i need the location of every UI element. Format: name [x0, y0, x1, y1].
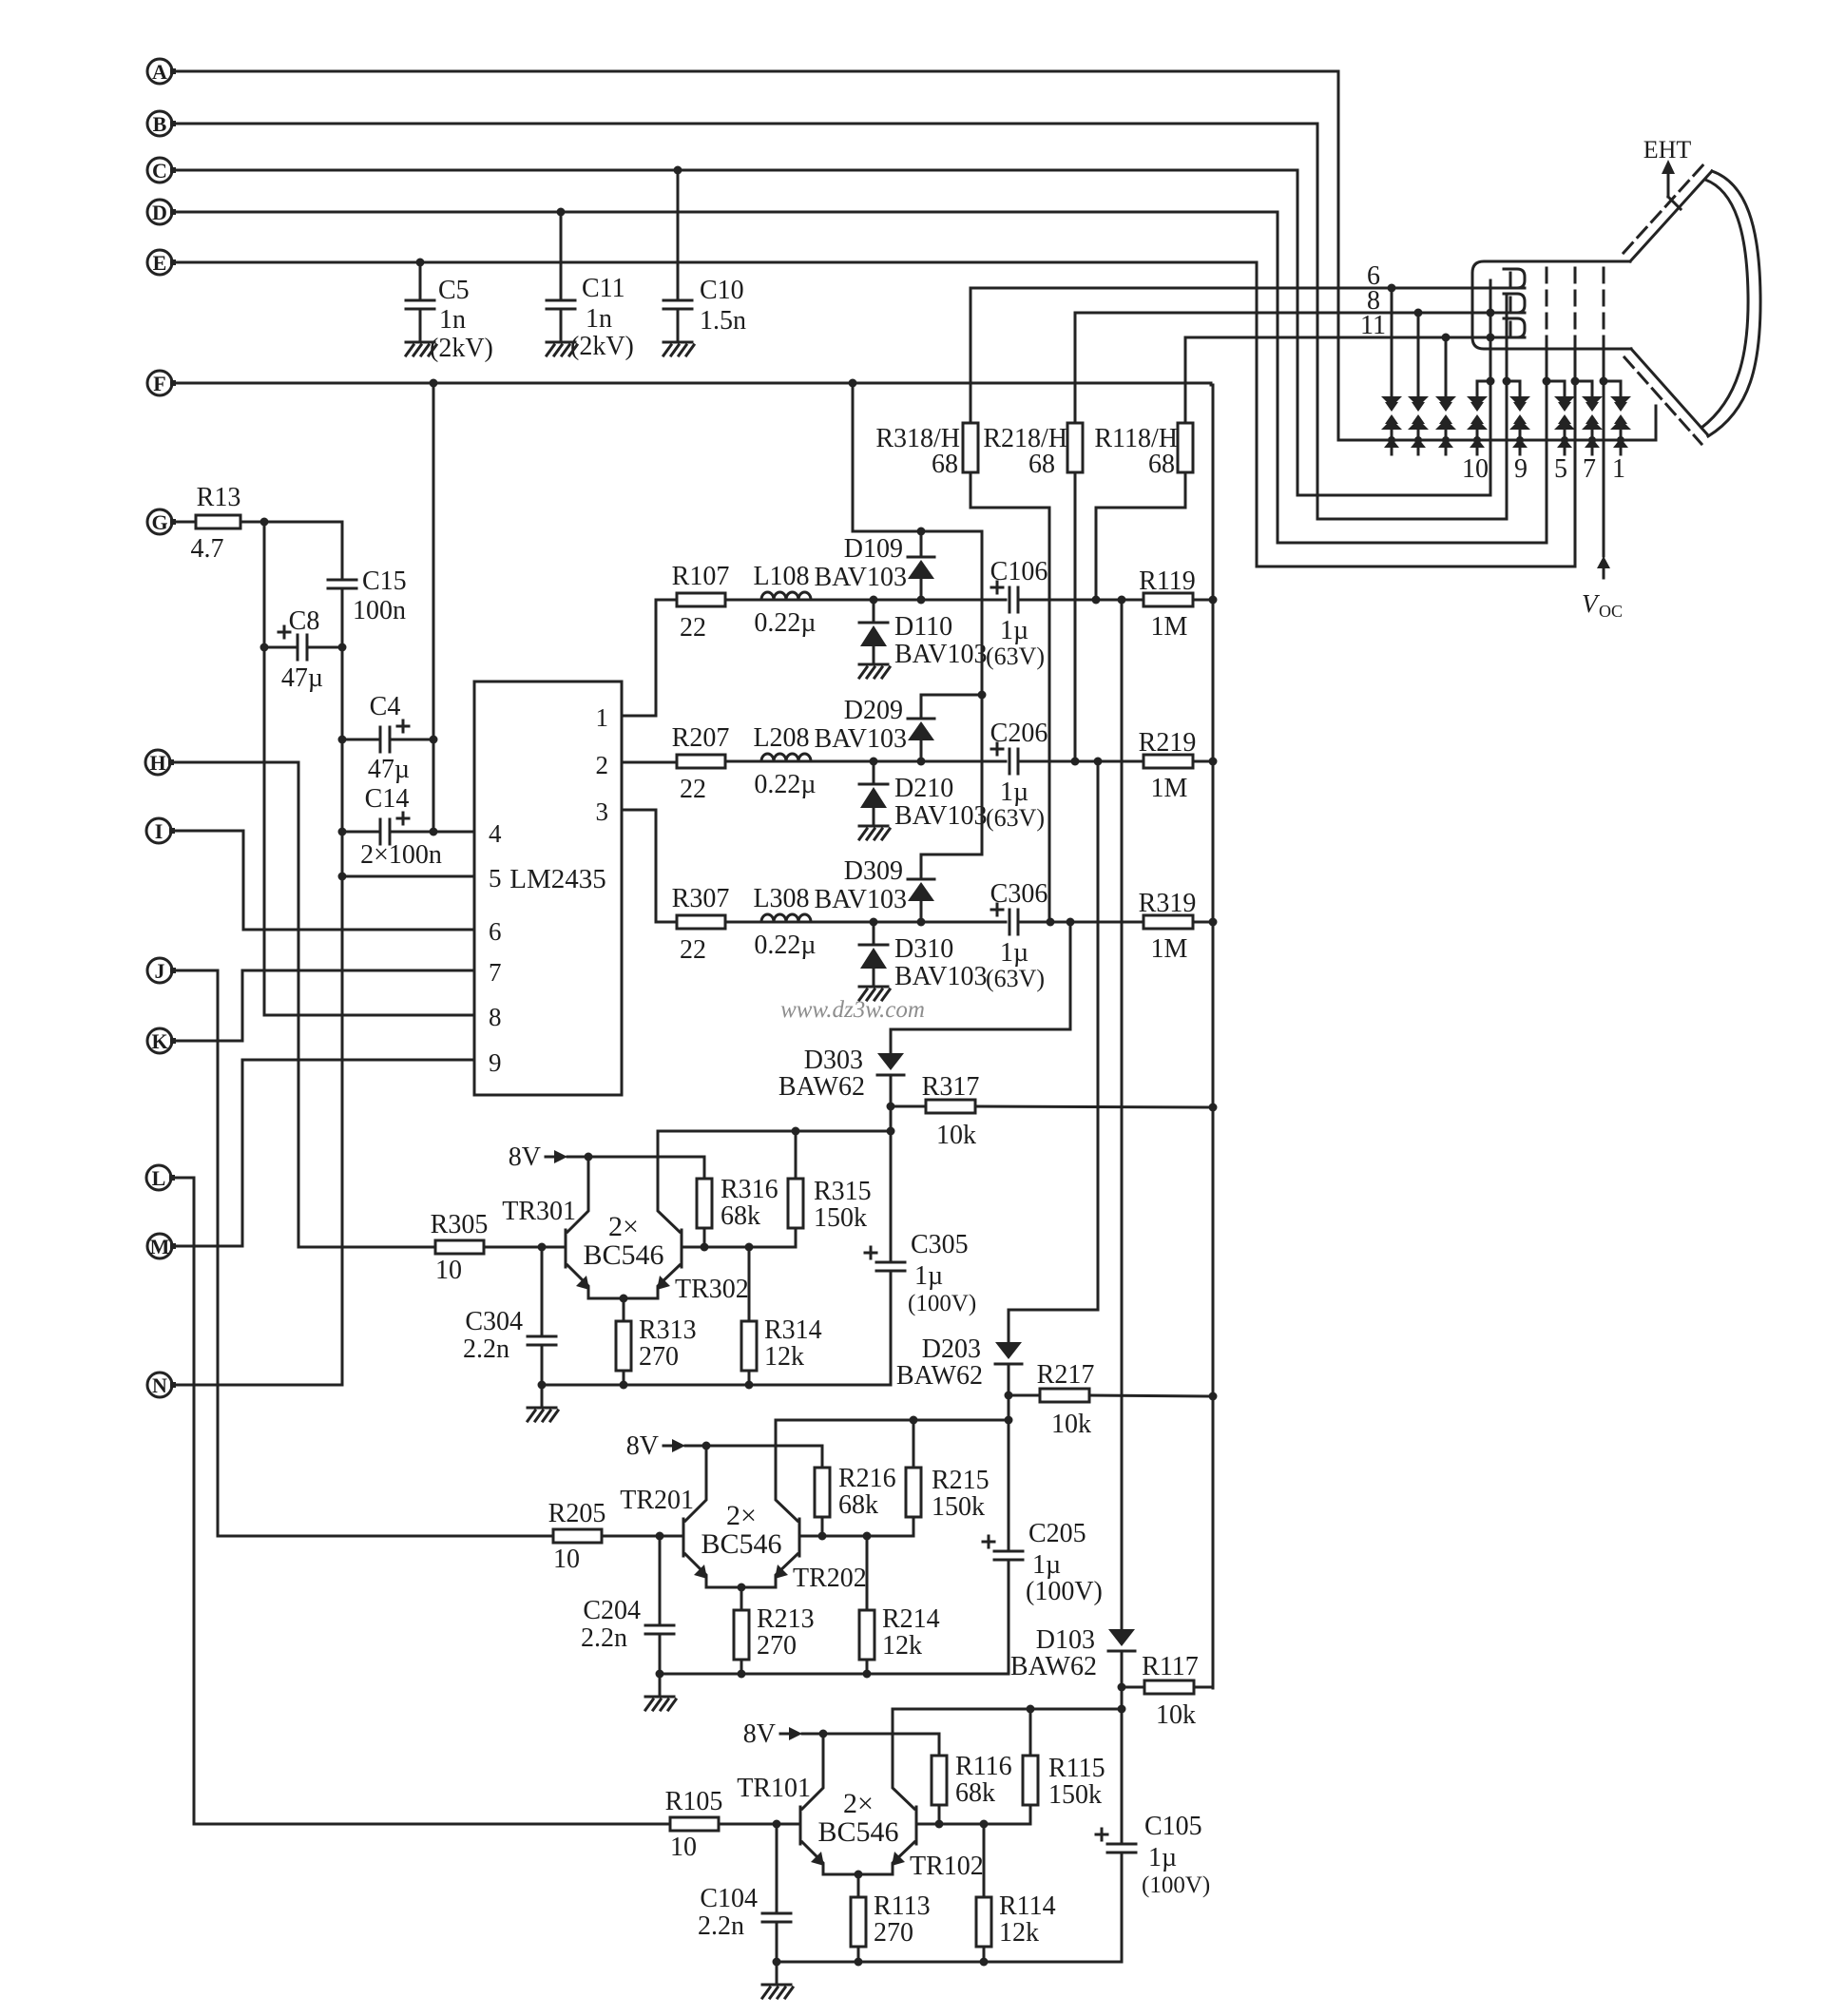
- svg-text:22: 22: [680, 775, 706, 804]
- transistor TR201: [683, 1446, 707, 1587]
- label 2xBC546 (TR201): [701, 1500, 781, 1560]
- CRT heater line pin 9: [1503, 296, 1511, 519]
- label R105: [665, 1787, 723, 1862]
- CRT grid line x1687: [1600, 268, 1608, 556]
- svg-text:(63V): (63V): [986, 965, 1045, 992]
- svg-text:BAW62: BAW62: [778, 1072, 865, 1102]
- svg-text:68k: 68k: [838, 1490, 878, 1520]
- spark gap column 8: [1610, 381, 1631, 454]
- wire stage top line (TR302): [658, 1127, 891, 1136]
- svg-text:5: 5: [1554, 454, 1567, 484]
- inductor L108: [761, 592, 811, 600]
- wire H input: [172, 761, 298, 764]
- svg-text:4.7: 4.7: [191, 534, 224, 564]
- terminal A: [147, 59, 176, 84]
- svg-text:D309: D309: [844, 856, 903, 886]
- wire G node vertical to pin 8: [264, 522, 474, 1015]
- wire pin7 bracket: [1575, 380, 1592, 383]
- capacitor C304: [528, 1247, 556, 1390]
- capacitor C5: [406, 262, 434, 340]
- inductor L308: [761, 914, 811, 922]
- label C8: [281, 606, 323, 693]
- wire F to pin 4 vertical: [432, 383, 435, 832]
- svg-text:TR302: TR302: [675, 1275, 749, 1304]
- svg-text:7: 7: [489, 958, 502, 987]
- label D210: [894, 774, 988, 831]
- CRT cathode hook 3: [1504, 318, 1525, 337]
- svg-text:I: I: [155, 819, 163, 843]
- capacitor C105: [1096, 1709, 1136, 1962]
- wire J input: [173, 970, 218, 972]
- svg-text:68k: 68k: [721, 1201, 760, 1231]
- svg-text:1M: 1M: [1151, 934, 1188, 964]
- svg-text:R215: R215: [932, 1466, 990, 1495]
- resistor R113: [851, 1874, 866, 1967]
- wire row 801 left: [811, 758, 1006, 766]
- terminal J: [147, 958, 176, 983]
- svg-text:R319: R319: [1139, 889, 1197, 918]
- svg-text:R305: R305: [431, 1210, 489, 1239]
- resistor R213: [734, 1587, 749, 1679]
- wire D303 node to stage3 top: [887, 1106, 895, 1136]
- svg-text:8V: 8V: [626, 1431, 659, 1461]
- resistor R219: [1144, 755, 1213, 768]
- label R314: [764, 1315, 822, 1372]
- resistor R314: [741, 1247, 757, 1390]
- CRT funnel upper slope: [1624, 163, 1712, 261]
- wire C15 rail vertical: [338, 522, 347, 1385]
- wire emitter node (TR101): [823, 1871, 893, 1879]
- resistor R116: [932, 1756, 947, 1824]
- label R113: [874, 1891, 931, 1948]
- terminal I: [146, 818, 175, 843]
- label C10 value: [700, 276, 746, 336]
- label R218/H: [983, 424, 1067, 479]
- svg-text:150k: 150k: [932, 1492, 985, 1522]
- label 2xBC546 (TR301): [583, 1211, 663, 1271]
- ground (C5): [406, 341, 434, 344]
- diode D303: [877, 1053, 904, 1106]
- svg-text:2.2n: 2.2n: [581, 1623, 627, 1653]
- svg-text:G: G: [151, 510, 167, 534]
- svg-text:R213: R213: [757, 1604, 815, 1634]
- svg-text:BAW62: BAW62: [1010, 1652, 1097, 1681]
- resistor R217: [1005, 1389, 1214, 1402]
- svg-text:EHT: EHT: [1643, 136, 1692, 163]
- capacitor C104: [762, 1824, 791, 1967]
- svg-text:D303: D303: [804, 1046, 863, 1075]
- svg-text:F: F: [153, 372, 165, 395]
- wire A vertical to spark bus: [1337, 71, 1340, 440]
- svg-text:R113: R113: [874, 1891, 931, 1921]
- diode D309: [908, 854, 934, 922]
- svg-text:K: K: [151, 1029, 167, 1053]
- svg-text:R307: R307: [672, 884, 730, 913]
- label D209: [814, 696, 907, 754]
- CRT cathode hook 1: [1504, 269, 1525, 288]
- svg-text:150k: 150k: [1048, 1780, 1102, 1810]
- svg-text:E: E: [153, 251, 167, 275]
- wire line 8 (CRT cathode): [1075, 309, 1525, 317]
- label R317: [922, 1072, 980, 1150]
- CRT grid line x1657: [1571, 268, 1580, 566]
- pin 3 wire to row3: [622, 810, 677, 922]
- svg-text:4: 4: [489, 819, 502, 848]
- wire pin7 feed (E): [1257, 566, 1575, 568]
- wire stage bottom line (TR101): [777, 1961, 1122, 1964]
- label D110: [894, 612, 988, 669]
- svg-text:68k: 68k: [955, 1778, 995, 1808]
- svg-text:L208: L208: [753, 723, 809, 753]
- svg-text:R316: R316: [721, 1175, 778, 1204]
- label R116: [955, 1752, 1012, 1808]
- wire line A: [173, 70, 1338, 73]
- capacitor C14: [342, 813, 438, 844]
- resistor R317: [887, 1100, 1214, 1113]
- svg-text:D310: D310: [894, 934, 953, 964]
- label D310: [894, 934, 988, 991]
- svg-text:BAV103: BAV103: [814, 724, 907, 754]
- label C15: [353, 566, 407, 625]
- svg-text:(63V): (63V): [986, 643, 1045, 670]
- wire D203 node to stage2 top: [1005, 1395, 1013, 1425]
- label C306: [986, 879, 1047, 992]
- svg-text:BC546: BC546: [701, 1528, 781, 1560]
- pin 9 wire: [242, 1059, 474, 1062]
- resistor R205: [218, 1529, 683, 1543]
- spark gap column 5: [1509, 381, 1530, 454]
- svg-text:TR201: TR201: [620, 1486, 694, 1515]
- resistor R114: [976, 1824, 991, 1967]
- transistor TR202: [775, 1420, 799, 1587]
- label R319: [1139, 889, 1197, 964]
- ground (C10): [663, 341, 692, 344]
- svg-text:C304: C304: [465, 1307, 523, 1336]
- svg-text:(2kV): (2kV): [570, 332, 634, 361]
- resistor R315: [788, 1131, 803, 1247]
- svg-text:0.22µ: 0.22µ: [754, 931, 816, 960]
- terminal N: [147, 1373, 176, 1397]
- ground (C104): [762, 1962, 793, 1998]
- svg-text:270: 270: [757, 1631, 797, 1661]
- CRT neck outline: [1472, 261, 1631, 349]
- svg-text:L: L: [152, 1166, 166, 1190]
- wire line 6 (CRT cathode): [971, 284, 1525, 293]
- spark gap column 2: [1408, 313, 1429, 454]
- svg-text:BC546: BC546: [583, 1239, 663, 1271]
- resistor R115: [1023, 1709, 1038, 1824]
- svg-text:2×: 2×: [843, 1788, 874, 1819]
- svg-text:2: 2: [596, 751, 609, 779]
- svg-text:2.2n: 2.2n: [463, 1334, 509, 1364]
- wire row2 to D203: [1009, 761, 1098, 1342]
- terminal H: [145, 750, 174, 775]
- terminal D: [147, 200, 176, 224]
- label C205: [1026, 1519, 1103, 1606]
- svg-text:1µ: 1µ: [1148, 1843, 1177, 1872]
- svg-text:6: 6: [489, 917, 502, 946]
- inductor L208: [761, 754, 811, 761]
- wire row 631 left: [811, 596, 1006, 605]
- svg-text:C306: C306: [990, 879, 1048, 909]
- wire pin5 feed (D): [1278, 542, 1547, 545]
- resistor R207: [677, 755, 761, 768]
- svg-text:C206: C206: [990, 719, 1048, 748]
- label C5 value: [430, 276, 493, 363]
- wire pin10 bracket: [1477, 380, 1490, 383]
- capacitor C11: [547, 212, 575, 340]
- svg-text:R107: R107: [672, 562, 730, 591]
- svg-text:TR102: TR102: [910, 1852, 984, 1881]
- label R305: [431, 1210, 489, 1285]
- label C106: [986, 557, 1047, 670]
- ground (D310): [859, 986, 888, 989]
- capacitor C205: [983, 1420, 1023, 1674]
- label C304: [463, 1307, 523, 1364]
- svg-text:2.2n: 2.2n: [698, 1911, 744, 1941]
- svg-text:L308: L308: [753, 884, 809, 913]
- svg-text:68: 68: [932, 450, 958, 479]
- ground (C204): [645, 1674, 676, 1710]
- resistor R319: [1144, 915, 1213, 929]
- svg-text:C205: C205: [1028, 1519, 1086, 1548]
- svg-text:BC546: BC546: [817, 1816, 898, 1848]
- svg-text:5: 5: [489, 864, 502, 893]
- svg-text:C104: C104: [700, 1884, 758, 1913]
- svg-text:(2kV): (2kV): [430, 334, 493, 363]
- svg-text:100n: 100n: [353, 596, 406, 625]
- label R216: [838, 1464, 896, 1520]
- transistor TR101: [800, 1734, 824, 1874]
- wire emitter node (TR201): [706, 1584, 776, 1592]
- svg-text:150k: 150k: [814, 1203, 867, 1233]
- wire stage top line (TR102): [893, 1705, 1122, 1714]
- svg-text:1µ: 1µ: [1000, 616, 1028, 645]
- svg-text:10: 10: [1462, 454, 1489, 484]
- capacitor C15: [328, 579, 356, 582]
- wire H vertical to stage3: [298, 762, 300, 1247]
- label D303: [778, 1046, 865, 1102]
- svg-text:C: C: [152, 159, 167, 182]
- svg-text:68: 68: [1148, 450, 1175, 479]
- svg-text:1µ: 1µ: [914, 1261, 943, 1291]
- svg-text:47µ: 47µ: [368, 755, 410, 784]
- wire pin5 bracket: [1547, 380, 1565, 383]
- svg-text:C305: C305: [911, 1230, 969, 1259]
- resistor R13: [173, 515, 342, 528]
- svg-text:1.5n: 1.5n: [700, 306, 746, 336]
- wire E vertical to pin7 feed: [1256, 262, 1259, 566]
- svg-text:M: M: [150, 1235, 170, 1258]
- svg-text:R214: R214: [882, 1604, 940, 1634]
- wire row1 to D103: [1121, 600, 1124, 1629]
- svg-text:2×: 2×: [608, 1211, 639, 1242]
- wire line B: [173, 123, 1317, 125]
- svg-text:R13: R13: [197, 483, 241, 512]
- wire pin10 feed (C): [1297, 494, 1490, 497]
- label R119: [1139, 566, 1196, 642]
- resistor R216: [815, 1468, 830, 1536]
- wire L input: [172, 1177, 194, 1180]
- resistor R318/H: [963, 288, 1049, 922]
- svg-text:(100V): (100V): [1026, 1577, 1103, 1606]
- label 2xBC546 (TR101): [817, 1788, 898, 1848]
- label R316: [721, 1175, 778, 1231]
- label R205: [548, 1499, 606, 1574]
- resistor R117: [1118, 1680, 1214, 1694]
- terminal L: [146, 1165, 175, 1190]
- label R13: [191, 483, 241, 564]
- svg-text:R105: R105: [665, 1787, 723, 1816]
- CRT funnel lower slope: [1624, 349, 1708, 444]
- label R313: [639, 1315, 697, 1372]
- svg-text:D109: D109: [844, 534, 903, 564]
- spark gap column 6: [1554, 381, 1575, 454]
- svg-text:D210: D210: [894, 774, 953, 803]
- svg-text:10: 10: [670, 1833, 697, 1862]
- wire line F: [173, 379, 1211, 388]
- diode D210: [859, 761, 888, 824]
- capacitor C10: [663, 170, 692, 340]
- wire row 801 right: [1018, 758, 1144, 766]
- label R315: [814, 1177, 872, 1233]
- pin 6 wire: [172, 831, 474, 930]
- label R219: [1139, 728, 1197, 803]
- wire D103 node to stage1 top: [1118, 1687, 1126, 1714]
- terminal E: [147, 250, 176, 275]
- svg-text:22: 22: [680, 613, 706, 643]
- svg-text:7: 7: [1583, 454, 1596, 484]
- CRT grid line x1627: [1543, 268, 1551, 543]
- wire pin9 bracket: [1507, 380, 1520, 383]
- svg-text:10k: 10k: [1156, 1700, 1196, 1730]
- svg-text:D203: D203: [922, 1334, 981, 1364]
- svg-text:R205: R205: [548, 1499, 606, 1528]
- label L308: [753, 884, 816, 960]
- power 8V (TR301): [509, 1142, 704, 1179]
- capacitor C305: [865, 1131, 905, 1385]
- svg-text:1µ: 1µ: [1032, 1550, 1061, 1580]
- pin numbers left: [489, 819, 502, 1077]
- svg-text:1n: 1n: [586, 304, 612, 334]
- wire line C: [173, 166, 1297, 175]
- resistor R218/H: [1067, 313, 1083, 761]
- svg-text:C11: C11: [582, 274, 625, 303]
- svg-text:12k: 12k: [764, 1342, 804, 1372]
- wire K to pin 7: [173, 970, 242, 1041]
- svg-text:C204: C204: [583, 1596, 641, 1625]
- label C105: [1142, 1812, 1210, 1898]
- node Voc: [1582, 556, 1623, 621]
- wire stage top line (TR202): [776, 1416, 1009, 1425]
- wire TR302 base: [682, 1243, 796, 1252]
- svg-text:R207: R207: [672, 723, 730, 753]
- svg-text:11: 11: [1360, 311, 1386, 340]
- label D309: [814, 856, 907, 914]
- svg-text:1n: 1n: [439, 305, 466, 335]
- svg-text:10: 10: [553, 1545, 580, 1574]
- op-amp U1 LM2435 box: [474, 682, 622, 1095]
- label C104: [698, 1884, 758, 1941]
- wire F feedback bus vertical: [1209, 383, 1218, 1688]
- svg-text:C5: C5: [438, 276, 470, 305]
- label R214: [882, 1604, 940, 1661]
- svg-text:R117: R117: [1142, 1652, 1199, 1681]
- resistor R307: [677, 915, 761, 929]
- wire M to pin 9: [173, 1060, 242, 1246]
- svg-text:270: 270: [639, 1342, 679, 1372]
- svg-text:BAV103: BAV103: [814, 563, 907, 592]
- label R114: [999, 1891, 1056, 1948]
- svg-text:1µ: 1µ: [1000, 778, 1028, 807]
- spark gap column 4: [1467, 381, 1488, 454]
- svg-text:R116: R116: [955, 1752, 1012, 1781]
- label R217: [1037, 1360, 1095, 1439]
- svg-text:L108: L108: [753, 562, 809, 591]
- label CRT pin numbers: [1462, 454, 1625, 484]
- terminal B: [147, 111, 176, 136]
- svg-text:R119: R119: [1139, 566, 1196, 596]
- resistor R214: [859, 1536, 874, 1679]
- pin 1 wire to row1: [622, 600, 677, 716]
- svg-text:47µ: 47µ: [281, 663, 323, 693]
- capacitor C204: [645, 1536, 674, 1679]
- svg-text:B: B: [153, 112, 167, 136]
- svg-text:12k: 12k: [999, 1918, 1039, 1948]
- svg-text:(100V): (100V): [908, 1291, 976, 1316]
- svg-text:2×: 2×: [726, 1500, 757, 1531]
- svg-text:1µ: 1µ: [1000, 938, 1028, 968]
- spark gap column 1: [1381, 288, 1402, 454]
- svg-text:R314: R314: [764, 1315, 822, 1345]
- resistor R118/H: [1096, 337, 1193, 600]
- svg-text:R317: R317: [922, 1072, 980, 1102]
- svg-text:www.dz3w.com: www.dz3w.com: [780, 997, 925, 1023]
- EHT lead: [1662, 160, 1681, 209]
- svg-text:3: 3: [596, 797, 609, 826]
- wire line E: [173, 259, 1257, 267]
- svg-text:D209: D209: [844, 696, 903, 725]
- svg-text:C105: C105: [1144, 1812, 1202, 1841]
- pin 7 wire: [242, 970, 474, 972]
- terminal M: [147, 1234, 176, 1258]
- svg-text:1M: 1M: [1151, 612, 1188, 642]
- ground (C11): [547, 341, 575, 344]
- diode D110: [859, 600, 888, 662]
- svg-text:8V: 8V: [509, 1142, 541, 1172]
- svg-text:1M: 1M: [1151, 774, 1188, 803]
- label R117: [1142, 1652, 1199, 1730]
- capacitor C106: [991, 582, 1018, 612]
- wire pin9 feed (B): [1317, 518, 1507, 521]
- label C206: [986, 719, 1047, 832]
- svg-text:10k: 10k: [1051, 1410, 1091, 1439]
- wire spark gap bus: [1338, 439, 1656, 442]
- svg-text:R313: R313: [639, 1315, 697, 1345]
- resistor R316: [697, 1179, 712, 1247]
- ground (D110): [859, 663, 888, 666]
- label D103: [1010, 1625, 1097, 1681]
- svg-text:TR202: TR202: [793, 1564, 867, 1593]
- svg-text:C106: C106: [990, 557, 1048, 586]
- wire D vertical to pin5 feed: [1277, 212, 1279, 543]
- svg-text:9: 9: [489, 1048, 502, 1077]
- svg-text:C10: C10: [700, 276, 744, 305]
- svg-text:R216: R216: [838, 1464, 896, 1493]
- svg-text:BAV103: BAV103: [894, 801, 988, 831]
- wire N to pin5 rail: [173, 1384, 342, 1387]
- spark gap column 3: [1435, 337, 1456, 454]
